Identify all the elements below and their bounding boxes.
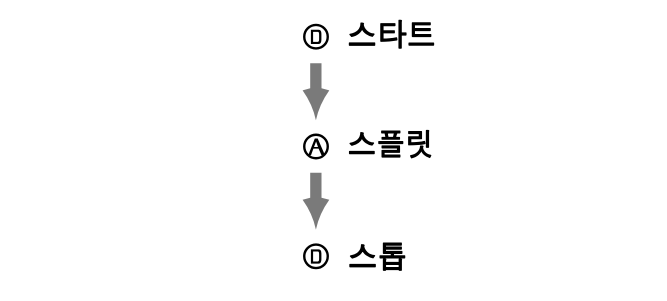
split node symbol: circled A xyxy=(304,135,328,159)
stop node symbol: circled D xyxy=(304,245,328,269)
label text 스플릿 (split) xyxy=(350,131,431,158)
start node symbol: circled D xyxy=(304,25,328,49)
thick gray down arrow 1 xyxy=(303,63,330,120)
label text 스톱 (stop) xyxy=(350,243,405,270)
label text 스타트 (start) xyxy=(349,21,433,48)
thick gray down arrow 2 xyxy=(303,173,330,230)
